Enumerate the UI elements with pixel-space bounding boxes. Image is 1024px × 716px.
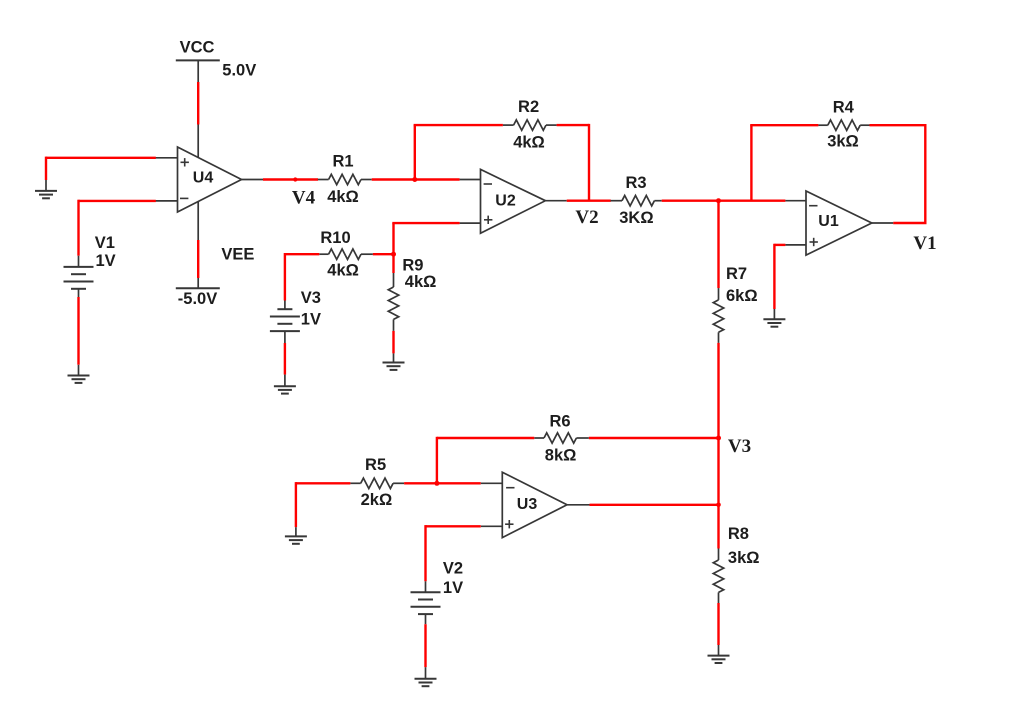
power symbol VCC 5.0V xyxy=(176,39,256,82)
svg-text:V3: V3 xyxy=(728,436,751,457)
wire R3 to U1 inverting input xyxy=(662,199,786,201)
resistor R4 3k xyxy=(818,98,869,150)
resistor R2 4k xyxy=(503,98,557,152)
svg-text:R3: R3 xyxy=(625,174,646,192)
wire U3 output to main line xyxy=(590,504,720,506)
svg-text:R8: R8 xyxy=(728,525,749,543)
wire R7 to node V3 xyxy=(717,343,719,438)
svg-text:R10: R10 xyxy=(320,229,350,247)
wire down to V3 xyxy=(284,253,286,301)
svg-text:-5.0V: -5.0V xyxy=(178,290,217,308)
ground xyxy=(415,667,437,686)
wire down to ground xyxy=(295,482,297,527)
svg-text:R1: R1 xyxy=(332,153,353,171)
svg-text:V2: V2 xyxy=(575,207,598,228)
node V3 label xyxy=(728,436,751,457)
resistor R6 8k xyxy=(534,413,589,465)
wire VCC to U4 V+ pin xyxy=(197,82,199,125)
wire R2 left segment xyxy=(414,124,503,126)
wire R6 right segment xyxy=(589,437,720,439)
ground xyxy=(763,309,785,327)
resistor R1 4k xyxy=(318,153,372,207)
wire U4 noninverting input xyxy=(46,157,156,159)
junction node V3 xyxy=(716,436,721,441)
svg-text:U1: U1 xyxy=(818,213,839,230)
dc source V2 1V xyxy=(411,560,464,625)
wire up to R4 xyxy=(750,125,752,201)
resistor R10 4k xyxy=(319,229,373,279)
svg-text:R5: R5 xyxy=(365,456,386,474)
resistor R9 4k xyxy=(388,257,436,331)
svg-text:4kΩ: 4kΩ xyxy=(405,273,437,291)
dc source V3 1V xyxy=(270,289,321,343)
svg-text:R7: R7 xyxy=(726,265,747,283)
ground xyxy=(383,353,405,370)
svg-text:4kΩ: 4kΩ xyxy=(327,188,359,206)
wire V3 to ground xyxy=(284,343,286,375)
resistor R5 2k xyxy=(350,456,404,509)
power symbol VEE -5.0V xyxy=(176,246,255,309)
ground xyxy=(285,527,307,544)
svg-text:V4: V4 xyxy=(292,188,316,209)
junction R3-R7-U1 xyxy=(716,198,721,203)
svg-text:V1: V1 xyxy=(95,234,115,252)
wire U1 noninverting input xyxy=(774,244,785,246)
wire down to V1 xyxy=(77,200,79,256)
wire R4 left segment xyxy=(750,124,818,126)
svg-text:3KΩ: 3KΩ xyxy=(619,209,653,227)
wire down to V2 xyxy=(424,525,426,581)
wire V2 to ground xyxy=(424,624,426,667)
wire down to ground xyxy=(773,244,775,309)
svg-text:1V: 1V xyxy=(301,310,321,328)
junction U3 output xyxy=(716,503,721,508)
wire U4 inverting input xyxy=(79,200,156,202)
node V2 label xyxy=(575,207,598,228)
svg-text:V3: V3 xyxy=(301,289,321,307)
op-amp U3 xyxy=(481,472,590,537)
svg-text:6kΩ: 6kΩ xyxy=(726,287,758,305)
wire down to ground xyxy=(45,157,47,180)
svg-text:5.0V: 5.0V xyxy=(222,62,256,80)
dc source V1 1V xyxy=(64,234,116,297)
svg-text:3kΩ: 3kΩ xyxy=(728,549,760,567)
svg-text:V2: V2 xyxy=(443,560,463,578)
op-amp U1 xyxy=(785,191,893,255)
svg-text:R4: R4 xyxy=(833,98,855,116)
wire R4 right segment xyxy=(870,124,926,126)
junction R5-R6-U3 xyxy=(434,481,439,486)
wire U4 output to R1 xyxy=(263,178,318,180)
wire R6 left segment xyxy=(437,437,534,439)
svg-text:U3: U3 xyxy=(517,496,538,513)
wire node V3 down to R8 xyxy=(717,438,719,549)
node V4 label xyxy=(292,188,316,209)
wire feedback down to U2 output xyxy=(588,124,590,201)
node V1 label xyxy=(913,233,936,254)
wire U2 noninverting input xyxy=(392,222,459,224)
op-amp U4 xyxy=(156,125,264,241)
wire R5 right segment xyxy=(404,482,438,484)
wire down to junction xyxy=(392,223,394,273)
wire U3 noninverting input xyxy=(426,525,481,527)
wire to U1 output xyxy=(893,222,926,224)
svg-text:U4: U4 xyxy=(193,169,214,186)
junction at R1-R2-U2 xyxy=(412,177,417,182)
wire R1 to junction and U2 inverting input xyxy=(372,178,460,180)
wire R10 left segment xyxy=(285,253,319,255)
resistor R8 3k xyxy=(713,525,759,603)
svg-text:VEE: VEE xyxy=(221,246,254,264)
wire feedback down xyxy=(924,124,926,223)
junction R10-R9-U2 xyxy=(391,252,396,257)
svg-text:8kΩ: 8kΩ xyxy=(545,447,577,465)
ground xyxy=(35,180,57,198)
svg-text:4kΩ: 4kΩ xyxy=(513,134,545,152)
wire U2 output xyxy=(567,199,611,201)
wire R8 to ground xyxy=(717,603,719,645)
wire V1 to ground xyxy=(77,297,79,365)
wire R2 right segment xyxy=(557,124,589,126)
wire R5 left segment xyxy=(296,482,351,484)
wire junction up to R2 xyxy=(414,125,416,179)
svg-text:4kΩ: 4kΩ xyxy=(327,261,359,279)
ground xyxy=(708,645,730,663)
svg-text:1V: 1V xyxy=(96,252,116,270)
svg-text:1V: 1V xyxy=(443,579,463,597)
node V4 dot xyxy=(293,177,297,181)
wire junction down to R7 xyxy=(717,200,719,289)
wire down to R5 junction xyxy=(436,437,438,484)
ground xyxy=(274,375,296,394)
resistor R7 6k xyxy=(713,265,757,343)
wire R5 to U3 inverting input xyxy=(436,482,481,484)
ground xyxy=(68,365,90,383)
wire R9 to ground xyxy=(392,331,394,354)
svg-text:3kΩ: 3kΩ xyxy=(827,133,859,151)
op-amp U2 xyxy=(460,169,567,233)
svg-text:VCC: VCC xyxy=(180,39,215,57)
svg-text:U2: U2 xyxy=(495,193,516,210)
svg-text:R2: R2 xyxy=(518,98,539,116)
svg-text:V1: V1 xyxy=(913,233,936,254)
wire R10 right segment xyxy=(373,253,395,255)
svg-text:R6: R6 xyxy=(549,413,570,431)
svg-text:2kΩ: 2kΩ xyxy=(361,491,393,509)
svg-text:R9: R9 xyxy=(402,257,423,275)
resistor R3 3K xyxy=(611,174,662,227)
wire U4 V- pin to VEE xyxy=(197,240,199,278)
